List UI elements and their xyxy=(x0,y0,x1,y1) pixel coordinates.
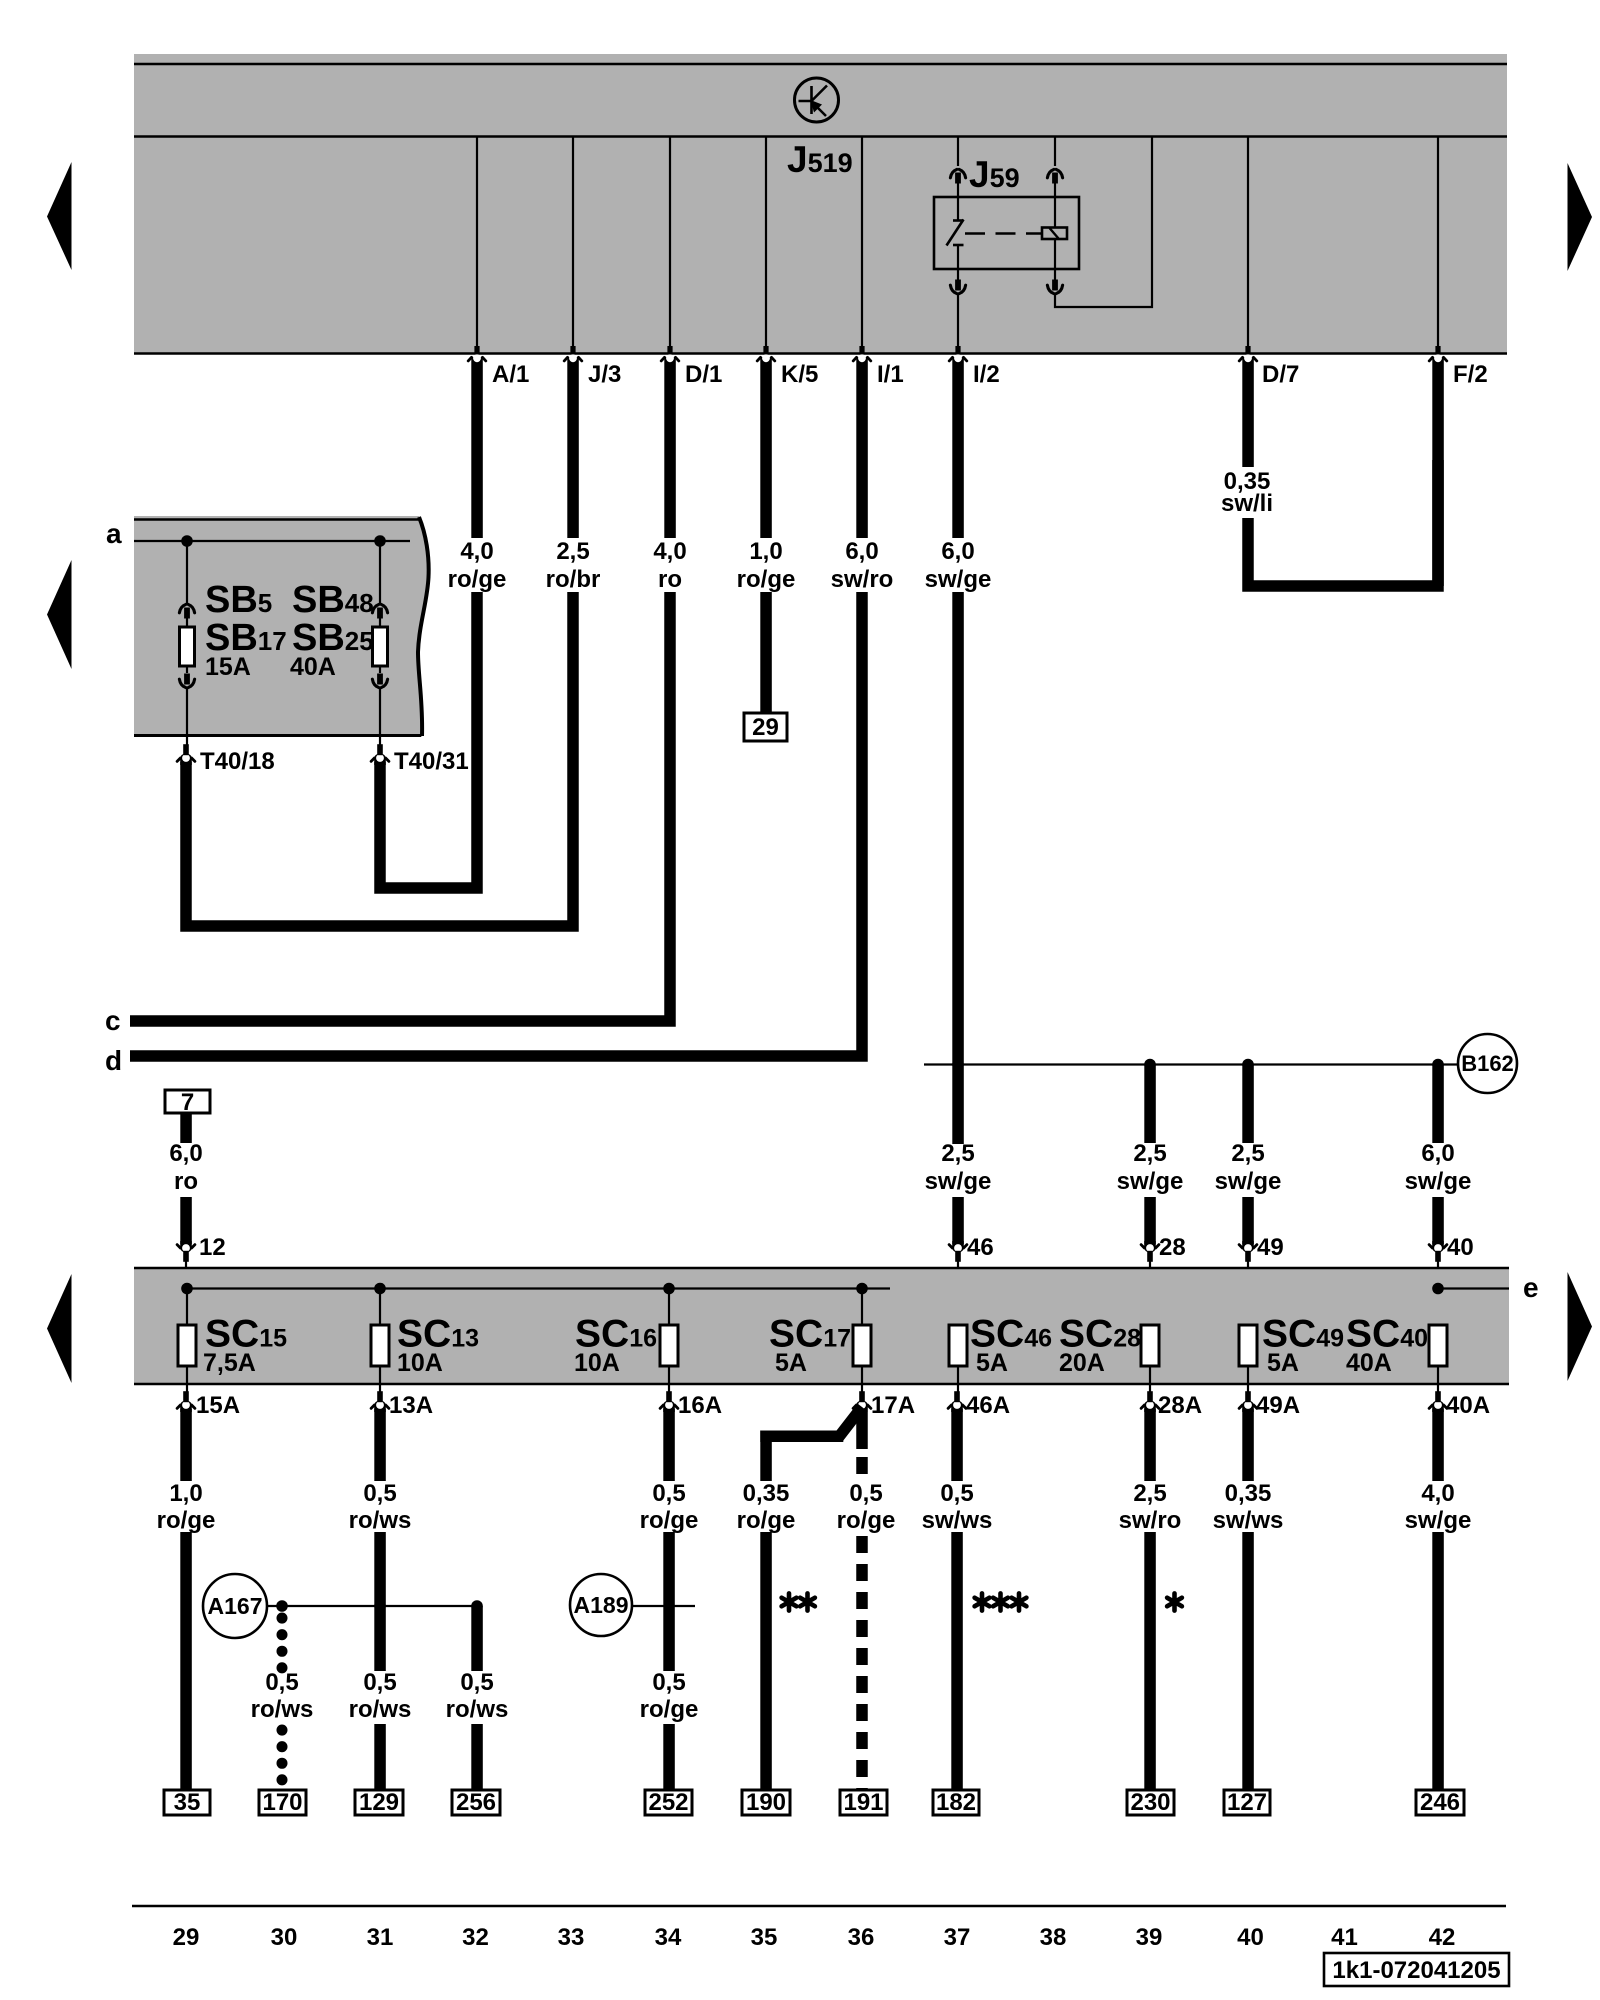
terminal 29 box xyxy=(744,713,787,741)
footnote * xyxy=(1167,1593,1182,1610)
svg-text:ro/ws: ro/ws xyxy=(349,1696,412,1723)
svg-text:sw/ws: sw/ws xyxy=(922,1507,993,1534)
svg-text:7: 7 xyxy=(181,1089,194,1116)
wire 13A to terminal 129 xyxy=(374,1409,386,1481)
footnote *** xyxy=(975,1593,990,1610)
svg-text:39: 39 xyxy=(1136,1924,1163,1951)
svg-text:17A: 17A xyxy=(871,1392,915,1419)
wire from 7 to pin 12 xyxy=(180,1112,192,1143)
T40/31 pin xyxy=(371,744,389,765)
svg-text:20A: 20A xyxy=(1059,1349,1105,1377)
wire 15A to terminal 35 xyxy=(180,1409,192,1481)
svg-text:0,5: 0,5 xyxy=(652,1669,685,1696)
svg-text:A/1: A/1 xyxy=(492,361,529,388)
svg-text:4,0: 4,0 xyxy=(653,538,686,565)
pin exits at J519 band bottom xyxy=(468,346,1447,586)
svg-text:sw/ge: sw/ge xyxy=(1405,1507,1472,1534)
wire A/1 down, elbow to T40/31 xyxy=(380,592,477,888)
svg-text:0,5: 0,5 xyxy=(460,1669,493,1696)
svg-text:33: 33 xyxy=(558,1924,585,1951)
svg-text:42: 42 xyxy=(1429,1924,1456,1951)
svg-text:29: 29 xyxy=(173,1924,200,1951)
svg-text:37: 37 xyxy=(944,1924,971,1951)
svg-text:sw/ro: sw/ro xyxy=(1119,1507,1182,1534)
svg-text:ro/ge: ro/ge xyxy=(640,1696,699,1723)
svg-text:30: 30 xyxy=(271,1924,298,1951)
wire 46A to terminal 182 xyxy=(951,1409,963,1481)
svg-text:1,0: 1,0 xyxy=(749,538,782,565)
svg-text:5A: 5A xyxy=(976,1349,1008,1377)
fuse SB25 (40A) right column xyxy=(372,541,387,748)
wire 40A to terminal 246 xyxy=(1432,1409,1444,1481)
svg-text:ro/ws: ro/ws xyxy=(349,1507,412,1534)
svg-text:252: 252 xyxy=(648,1789,688,1816)
svg-text:190: 190 xyxy=(746,1789,786,1816)
svg-text:2,5: 2,5 xyxy=(1231,1140,1264,1167)
svg-text:B162: B162 xyxy=(1461,1051,1514,1076)
svg-text:28A: 28A xyxy=(1158,1392,1202,1419)
svg-text:sw/ws: sw/ws xyxy=(1213,1507,1284,1534)
page nav arrow left top xyxy=(47,162,72,270)
svg-text:0,5: 0,5 xyxy=(652,1480,685,1507)
svg-text:sw/ge: sw/ge xyxy=(1405,1168,1472,1195)
svg-text:13A: 13A xyxy=(389,1392,433,1419)
svg-text:10A: 10A xyxy=(397,1349,443,1377)
wire K/5 down to terminal 29 xyxy=(760,592,772,714)
wires from B162 rail into fuse row xyxy=(952,1197,964,1244)
svg-text:34: 34 xyxy=(655,1924,682,1951)
wire stubs inside J519 band xyxy=(476,136,478,353)
svg-text:41: 41 xyxy=(1331,1924,1358,1951)
svg-text:129: 129 xyxy=(359,1789,399,1816)
svg-text:sw/ge: sw/ge xyxy=(925,1168,992,1195)
svg-text:35: 35 xyxy=(751,1924,778,1951)
wire size labels row 4 xyxy=(251,1669,699,1723)
svg-text:0,5: 0,5 xyxy=(940,1480,973,1507)
wire I/2 down to fuse SC46 xyxy=(952,592,964,1144)
svg-text:c: c xyxy=(105,1005,121,1036)
svg-text:sw/ge: sw/ge xyxy=(925,566,992,593)
svg-text:d: d xyxy=(105,1045,122,1076)
svg-text:ro/ge: ro/ge xyxy=(837,1507,896,1534)
svg-text:246: 246 xyxy=(1420,1789,1460,1816)
svg-text:16A: 16A xyxy=(678,1392,722,1419)
svg-text:2,5: 2,5 xyxy=(556,538,589,565)
svg-text:A189: A189 xyxy=(574,1592,629,1618)
svg-text:170: 170 xyxy=(262,1789,302,1816)
wire D/7 elbow to F/2 xyxy=(1248,460,1438,586)
wire to terminal 256 xyxy=(471,1606,483,1671)
svg-text:sw/li: sw/li xyxy=(1221,490,1273,517)
svg-text:5A: 5A xyxy=(775,1349,807,1377)
svg-text:7,5A: 7,5A xyxy=(203,1349,256,1377)
svg-text:36: 36 xyxy=(848,1924,875,1951)
svg-text:ro: ro xyxy=(174,1168,198,1195)
fuse SC40 xyxy=(1429,1325,1447,1366)
svg-text:T40/31: T40/31 xyxy=(394,748,469,775)
svg-text:2,5: 2,5 xyxy=(1133,1140,1166,1167)
svg-text:1k1-072041205: 1k1-072041205 xyxy=(1332,1957,1500,1984)
svg-text:35: 35 xyxy=(174,1789,201,1816)
wire 16A to terminal 252 xyxy=(663,1409,675,1481)
control unit J519 gray band xyxy=(134,54,1507,354)
node e stub xyxy=(1432,1283,1444,1295)
svg-text:T40/18: T40/18 xyxy=(200,748,275,775)
svg-text:ro/ge: ro/ge xyxy=(737,566,796,593)
svg-text:ro/ws: ro/ws xyxy=(251,1696,314,1723)
svg-text:40: 40 xyxy=(1447,1234,1474,1261)
svg-text:0,5: 0,5 xyxy=(363,1480,396,1507)
fuse box SB gray panel xyxy=(134,516,429,737)
fuse row gray band xyxy=(134,1268,1509,1385)
svg-text:J/3: J/3 xyxy=(588,361,621,388)
current track scale xyxy=(132,1905,1506,1908)
svg-text:182: 182 xyxy=(936,1789,976,1816)
fuse SC46 xyxy=(949,1325,967,1366)
svg-text:32: 32 xyxy=(462,1924,489,1951)
svg-text:191: 191 xyxy=(843,1789,883,1816)
svg-text:ro: ro xyxy=(658,566,682,593)
svg-text:ro/ws: ro/ws xyxy=(446,1696,509,1723)
svg-text:D/1: D/1 xyxy=(685,361,722,388)
fuse SC16 xyxy=(668,1289,670,1326)
connector A189 xyxy=(570,1574,632,1636)
wire J/3 down, elbow to T40/18 xyxy=(186,592,573,926)
svg-text:4,0: 4,0 xyxy=(460,538,493,565)
svg-text:a: a xyxy=(106,518,122,549)
svg-text:15A: 15A xyxy=(205,653,251,681)
svg-text:5A: 5A xyxy=(1267,1349,1299,1377)
wire size labels row 2 xyxy=(169,1140,1471,1195)
svg-text:sw/ro: sw/ro xyxy=(831,566,894,593)
svg-text:F/2: F/2 xyxy=(1453,361,1488,388)
svg-text:0,5: 0,5 xyxy=(363,1669,396,1696)
svg-text:4,0: 4,0 xyxy=(1421,1480,1454,1507)
svg-text:6,0: 6,0 xyxy=(1421,1140,1454,1167)
internal rail xyxy=(187,1287,890,1289)
wire size labels row 3 xyxy=(157,1480,1472,1534)
svg-text:49A: 49A xyxy=(1256,1392,1300,1419)
fuse outputs below band xyxy=(177,1391,1490,1419)
svg-text:2,5: 2,5 xyxy=(1133,1480,1166,1507)
wire size labels row 1 xyxy=(448,468,1273,593)
svg-text:ro/ge: ro/ge xyxy=(157,1507,216,1534)
footnote ** xyxy=(782,1593,797,1610)
wire D/1 down to node c xyxy=(130,592,670,1021)
dotted wire to terminal 170 xyxy=(277,1618,288,1668)
svg-text:0,5: 0,5 xyxy=(265,1669,298,1696)
svg-text:ro/ge: ro/ge xyxy=(640,1507,699,1534)
relay J59 xyxy=(934,136,1152,353)
fuse SC15 xyxy=(186,1289,188,1326)
svg-text:40A: 40A xyxy=(1446,1392,1490,1419)
dashed wire to terminal 191 xyxy=(856,1412,868,1449)
terminal symbol K in circle xyxy=(795,78,839,122)
svg-text:40A: 40A xyxy=(1346,1349,1392,1377)
wire 49A to terminal 127 xyxy=(1242,1409,1254,1481)
svg-text:28: 28 xyxy=(1159,1234,1186,1261)
fuse SC49 xyxy=(1239,1325,1257,1366)
svg-text:40: 40 xyxy=(1237,1924,1264,1951)
page nav arrow left bottom xyxy=(47,1274,72,1383)
svg-text:D/7: D/7 xyxy=(1262,361,1299,388)
svg-text:256: 256 xyxy=(456,1789,496,1816)
svg-text:sw/ge: sw/ge xyxy=(1215,1168,1282,1195)
svg-text:40A: 40A xyxy=(290,653,336,681)
svg-text:6,0: 6,0 xyxy=(845,538,878,565)
fuse SC28 xyxy=(1141,1325,1159,1366)
page nav arrow right top xyxy=(1568,163,1593,271)
svg-text:15A: 15A xyxy=(196,1392,240,1419)
fuse SC17 xyxy=(861,1289,863,1326)
svg-text:6,0: 6,0 xyxy=(941,538,974,565)
svg-text:A167: A167 xyxy=(208,1593,263,1619)
svg-text:ro/br: ro/br xyxy=(546,566,601,593)
svg-text:0,35: 0,35 xyxy=(1225,1480,1272,1507)
svg-text:31: 31 xyxy=(367,1924,394,1951)
svg-text:49: 49 xyxy=(1257,1234,1284,1261)
svg-text:0,5: 0,5 xyxy=(849,1480,882,1507)
svg-text:46A: 46A xyxy=(966,1392,1010,1419)
svg-text:I/1: I/1 xyxy=(877,361,904,388)
svg-text:6,0: 6,0 xyxy=(169,1140,202,1167)
wire I/1 down to node d xyxy=(130,592,862,1056)
fuse SC13 xyxy=(379,1289,381,1326)
svg-text:sw/ge: sw/ge xyxy=(1117,1168,1184,1195)
svg-text:2,5: 2,5 xyxy=(941,1140,974,1167)
svg-text:K/5: K/5 xyxy=(781,361,818,388)
svg-text:230: 230 xyxy=(1130,1789,1170,1816)
svg-text:127: 127 xyxy=(1227,1789,1267,1816)
svg-text:10A: 10A xyxy=(574,1349,620,1377)
svg-text:I/2: I/2 xyxy=(973,361,1000,388)
diagram number box xyxy=(1324,1953,1509,1986)
svg-text:38: 38 xyxy=(1040,1924,1067,1951)
svg-text:0,35: 0,35 xyxy=(743,1480,790,1507)
connector A167 xyxy=(203,1574,267,1638)
fuse SB17 (15A) left column xyxy=(179,541,194,748)
T40/18 pin xyxy=(177,744,195,765)
svg-text:29: 29 xyxy=(752,714,779,741)
svg-text:ro/ge: ro/ge xyxy=(737,1507,796,1534)
page nav arrow right bottom xyxy=(1568,1272,1593,1381)
svg-text:ro/ge: ro/ge xyxy=(448,566,507,593)
svg-text:46: 46 xyxy=(967,1234,994,1261)
terminal 7 box xyxy=(165,1090,210,1113)
page nav arrow left mid xyxy=(47,560,72,669)
connector B162 rail xyxy=(924,1063,1458,1065)
svg-text:e: e xyxy=(1523,1272,1539,1303)
svg-text:1,0: 1,0 xyxy=(169,1480,202,1507)
wire 28A to terminal 230 xyxy=(1144,1409,1156,1481)
svg-text:12: 12 xyxy=(199,1234,226,1261)
terminal boxes xyxy=(164,1789,1464,1816)
wire 17A diagonal to 190 column xyxy=(838,1407,862,1438)
